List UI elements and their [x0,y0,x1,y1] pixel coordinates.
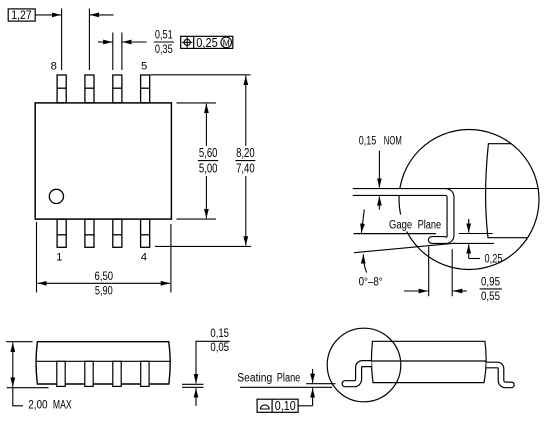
dimension line 6,50/5,90 right arrow [100,282,170,284]
svg-text:MAX: MAX [53,399,72,411]
dimension line 6,50/5,90 left arrow [37,282,100,284]
leader for 0,15/0,05 [196,341,209,352]
dimension 0,51/0,35 arrow right [98,41,112,43]
dimension line 8,20/7,40 upper arrow [245,76,247,146]
svg-text:Seating: Seating [237,373,272,385]
dimension 1,27 pitch: boxed value [8,9,35,22]
svg-text:0,05: 0,05 [210,342,229,354]
dimension 0,51/0,35 arrow left [122,41,146,43]
parting line through body [372,360,487,362]
svg-text:0,35: 0,35 [155,44,173,56]
svg-text:8: 8 [51,60,57,72]
svg-text:Plane: Plane [277,373,301,385]
package body (top view) [35,103,171,219]
svg-text:0,51: 0,51 [155,30,173,42]
svg-text:5,60: 5,60 [199,146,218,160]
pin 6 (top row) [113,75,122,103]
dimension 0,25 up arrow + leader [468,244,470,258]
dimension text 8,20 over 7,40 [235,146,255,176]
dimension line 5,60/5,00 lower arrow [205,176,207,218]
side view lead 3 [113,361,121,386]
dimension text 0,51 over 0,35 [154,30,174,56]
svg-text:8,20: 8,20 [236,146,255,160]
body edge in detail [486,144,528,238]
dimension text 5,60 over 5,00 [198,146,218,176]
svg-text:M: M [223,38,230,49]
dimension 1,27 arrow left [90,14,114,16]
dimension 0,95 right arrow [404,290,428,292]
svg-text:1,27: 1,27 [11,10,32,22]
dimension text 0,95 over 0,55 [480,277,502,303]
lead foot bottom extension line [306,383,335,385]
feature control frame: position 0,25 M [181,36,233,50]
seating flatness up arrow [312,388,314,406]
svg-text:2,00: 2,00 [28,399,47,411]
svg-text:0,55: 0,55 [481,291,500,303]
dimension 0,95 left arrow [453,290,467,292]
svg-text:0,25: 0,25 [196,36,218,50]
extension line body left (6,50) [36,222,38,293]
svg-text:1: 1 [56,251,62,263]
side view lead 2 [85,361,93,386]
extension line body top (5,60) [177,102,217,104]
svg-text:Plane: Plane [418,220,442,232]
gage plane line [354,233,436,235]
dimension line 8,20/7,40 lower arrow [245,176,247,246]
angle arc arrow for 0-8 degrees [363,254,366,272]
svg-text:0,95: 0,95 [481,277,500,289]
svg-text:0,25: 0,25 [485,253,503,265]
dimension 2,00 MAX down arrow [12,364,14,387]
svg-text:0,10: 0,10 [275,399,296,413]
side view body [36,342,170,384]
detail circle (gage plane) [399,130,539,270]
leader for 2,00 MAX [13,388,23,406]
svg-text:Gage: Gage [389,220,412,232]
extension line pin-6 right edge [121,33,123,71]
extension line gage plane intercept (0,95) [428,247,430,297]
svg-text:0°–8°: 0°–8° [359,277,383,289]
svg-text:4: 4 [141,251,147,263]
pin 5 (top row) [141,75,150,103]
gage plane extension for 0,25 [459,233,493,235]
extension line body bottom (5,60) [177,218,217,220]
extension line pin-7 centre [88,9,90,71]
0-8 degree angled line [354,243,455,253]
svg-text:0,15: 0,15 [359,135,377,147]
right gull-wing lead [486,362,514,388]
lead top datum chord line [353,188,538,190]
dimension text 0,15 over 0,05 [209,328,230,354]
seating plane line under side view [7,387,49,389]
dimension 1,27 arrow right [36,14,62,16]
dimension text 6,50 over 5,90 [95,269,114,298]
pin 7 (top row) [85,75,94,103]
extension line pin tips top (8,20) [151,74,251,76]
svg-text:6,50: 6,50 [95,269,114,283]
Gage Plane label (with background mask) [387,215,444,232]
svg-text:5: 5 [141,60,147,72]
lead (detail view) [353,189,454,244]
svg-text:NOM: NOM [384,135,402,147]
dimension 2,00 MAX up arrow [12,343,14,364]
side view lead 1 [57,361,65,386]
extension line seating level (0,15/0,05) [182,386,204,388]
extension line body right (6,50) [170,224,172,293]
package body (side profile) [371,341,486,382]
extension line body bottom level (0,15/0,05) [182,383,204,385]
extension line body top (2,00 MAX) [6,341,32,343]
svg-text:0,15: 0,15 [210,328,229,340]
dimension 0,15/0,05 up arrow [195,388,197,406]
extension line pin-8 centre [61,9,63,71]
left gull-wing lead [342,361,371,387]
seating plane datum line [240,386,332,388]
pin 3 (bottom row) [113,219,122,247]
pin 2 (bottom row) [85,219,94,247]
pin 1 (bottom row) [57,219,66,247]
dimension 0,15/0,05 down arrow [195,352,197,383]
dimension 0,15 NOM down arrow [378,151,380,188]
extension line lead tip (0,95) [451,249,453,296]
dimension line 5,60/5,00 upper arrow [205,104,207,146]
pin 4 (bottom row) [141,219,150,247]
flatness feature control frame 0,10 [257,399,313,413]
side view parting line [36,360,171,362]
dimension 0,15 NOM up arrow [378,196,380,209]
gage plane pointer arrow [361,210,364,233]
svg-text:7,40: 7,40 [236,162,255,176]
lead foot bottom extension [454,242,495,244]
pin-1 index circle [49,189,63,203]
extension line pin tips bottom (8,20) [155,245,251,247]
svg-text:5,90: 5,90 [95,284,113,298]
dimension 0,25 down arrow [468,219,470,233]
pin 8 (top row) [57,75,66,103]
detail circle (seating plane) [327,328,401,402]
extension line pin-6 left edge [112,33,114,71]
seating flatness down arrow [312,369,314,383]
svg-text:5,00: 5,00 [199,162,218,176]
side view lead 4 [141,361,149,386]
